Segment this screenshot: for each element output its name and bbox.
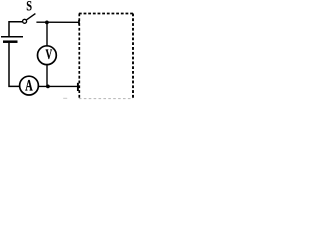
svg-text:A: A: [25, 76, 33, 94]
svg-text:S: S: [26, 0, 32, 14]
svg-text:V: V: [45, 46, 52, 63]
